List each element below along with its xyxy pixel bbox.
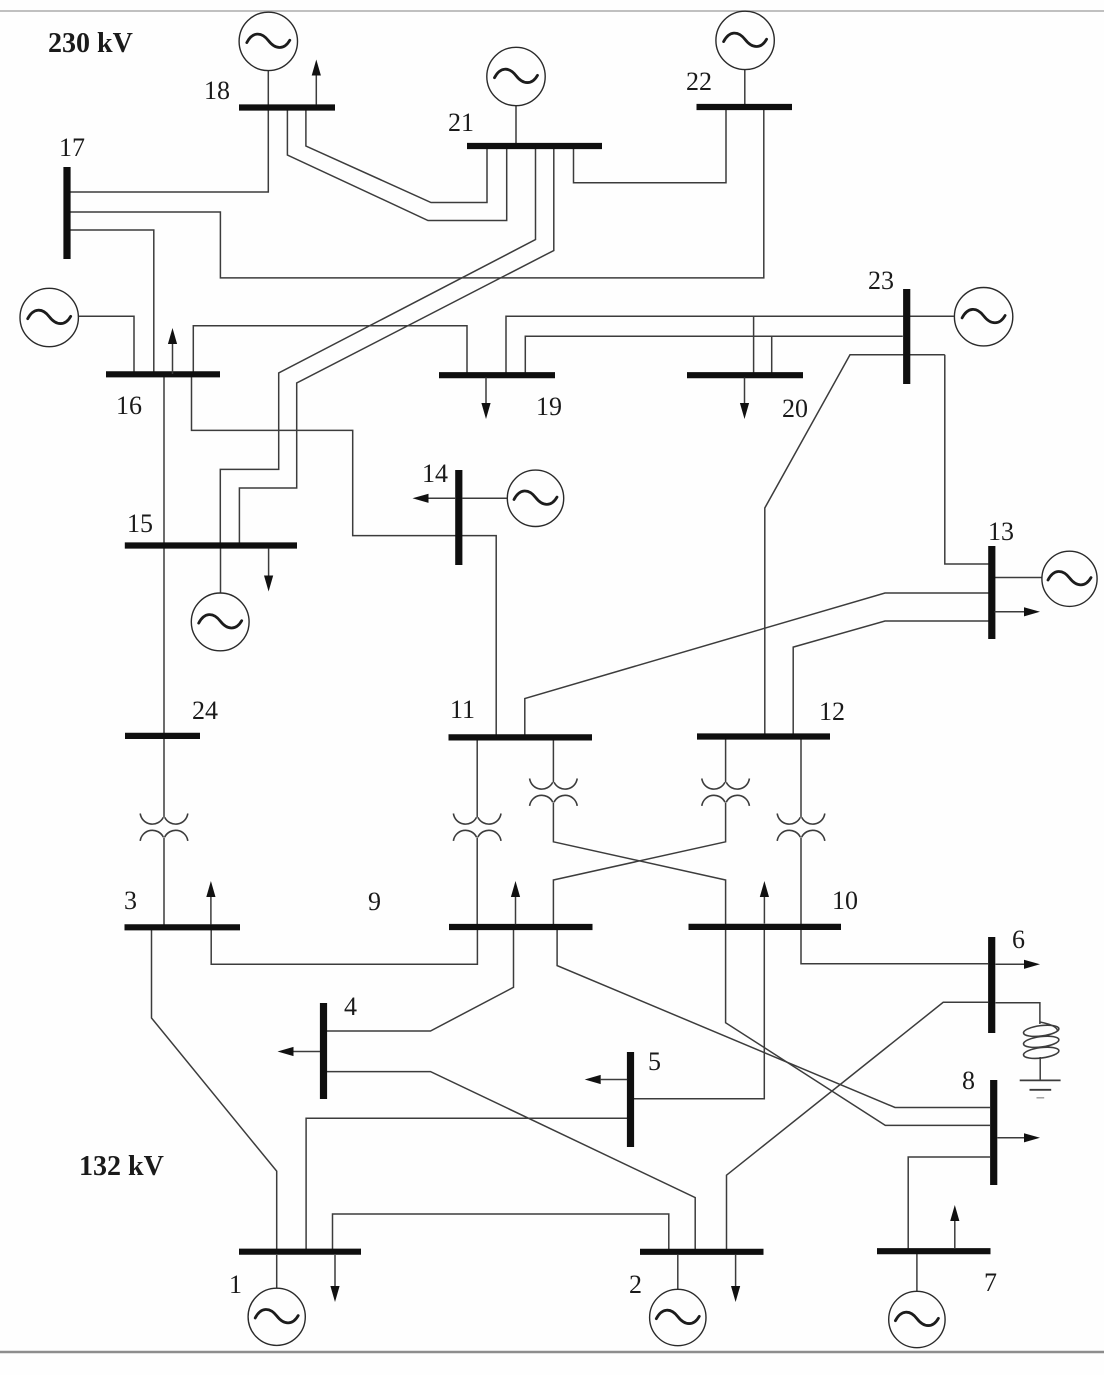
wire generator lead bus 18 bbox=[267, 71, 269, 105]
generator G bus 13 bbox=[1042, 551, 1097, 606]
bus 21 bbox=[467, 143, 602, 149]
wire 1-3 bbox=[152, 930, 277, 1252]
wire 8-9 bbox=[557, 927, 990, 1108]
svg-text:13: 13 bbox=[988, 517, 1014, 546]
transformer T 9-12 bbox=[702, 779, 750, 806]
wire 4-9 bbox=[327, 927, 514, 1031]
generator G bus 7 bbox=[889, 1291, 945, 1347]
bus 23 bbox=[903, 289, 910, 384]
wire 10-12 via transformer bbox=[800, 737, 802, 927]
bus 5 bbox=[627, 1052, 634, 1147]
wire reactor lead bus 6 bbox=[996, 1003, 1040, 1024]
wire 9-11 via transformer bbox=[476, 737, 478, 927]
wire 2-4 bbox=[327, 1072, 695, 1252]
svg-text:12: 12 bbox=[819, 697, 845, 726]
load arrow bus 16 bbox=[168, 328, 177, 374]
svg-text:11: 11 bbox=[450, 695, 475, 724]
bus 16 bbox=[106, 371, 220, 377]
svg-text:10: 10 bbox=[832, 886, 858, 915]
wire 2-6 bbox=[727, 1002, 989, 1252]
wire generator lead bus 13 bbox=[995, 577, 1042, 579]
bus 14 bbox=[455, 470, 462, 565]
wire 16-17 bbox=[67, 230, 154, 374]
svg-text:22: 22 bbox=[686, 67, 712, 96]
wire generator lead bus 16 bbox=[79, 316, 134, 371]
bus 20 bbox=[687, 372, 803, 378]
svg-text:19: 19 bbox=[536, 392, 562, 421]
wire 8-10 bbox=[726, 927, 990, 1125]
bus 6 bbox=[988, 937, 995, 1033]
load arrow bus 9 bbox=[511, 881, 520, 924]
svg-text:14: 14 bbox=[422, 459, 448, 488]
wire 16-19 bbox=[193, 326, 467, 375]
reactor coil bus 6 bbox=[1023, 1022, 1060, 1060]
wire 12-23 bbox=[765, 355, 945, 737]
wire 24-3 below transformer bbox=[163, 837, 165, 927]
generator G bus 15 bbox=[191, 593, 249, 651]
wire 21-22 bbox=[574, 110, 727, 183]
bus 13 bbox=[988, 546, 995, 639]
transformer T 9-11 bbox=[453, 814, 501, 841]
svg-text:16: 16 bbox=[116, 391, 142, 420]
svg-text:3: 3 bbox=[124, 886, 137, 915]
generator G bus 1 bbox=[248, 1288, 305, 1345]
bus 9 bbox=[449, 924, 593, 930]
svg-text:5: 5 bbox=[648, 1047, 661, 1076]
wire reactor to ground bbox=[1039, 1057, 1041, 1080]
wire generator lead bus 15 bbox=[220, 549, 222, 594]
load arrow bus 7 bbox=[950, 1205, 959, 1249]
wire 18-21 circuit 2 bbox=[287, 110, 506, 221]
bus 1 bbox=[239, 1249, 361, 1255]
bus 17 bbox=[63, 167, 70, 259]
svg-text:15: 15 bbox=[127, 509, 153, 538]
load arrow bus 18 bbox=[312, 60, 321, 105]
ground symbol bbox=[1020, 1080, 1061, 1097]
wire 12-13 bbox=[793, 621, 989, 737]
wire 18-21 circuit 1 bbox=[306, 110, 487, 203]
wire 6-10 bbox=[801, 927, 988, 964]
load arrow bus 19 bbox=[481, 378, 490, 420]
svg-text:132 kV: 132 kV bbox=[79, 1151, 164, 1182]
generator G bus 16 bbox=[20, 288, 78, 346]
load arrow bus 2 bbox=[731, 1255, 740, 1302]
wire 1-2 bbox=[333, 1214, 669, 1252]
svg-text:17: 17 bbox=[59, 133, 85, 162]
load arrow bus 4 bbox=[278, 1047, 321, 1056]
load arrow bus 10 bbox=[760, 881, 769, 924]
load arrow bus 8 bbox=[997, 1133, 1040, 1142]
wire 17-22 bbox=[67, 110, 764, 278]
generator G bus 2 bbox=[650, 1289, 706, 1345]
generator G bus 14 bbox=[507, 470, 563, 526]
wire 19-20 / 20-23 circuit 1 bbox=[506, 316, 954, 375]
bus 19 bbox=[439, 372, 555, 378]
generator G bus 21 bbox=[487, 47, 545, 105]
transformer T 3-24 bbox=[140, 814, 188, 841]
wire 3-9 bbox=[211, 927, 477, 964]
bus 18 bbox=[239, 104, 335, 110]
svg-text:18: 18 bbox=[204, 76, 230, 105]
wire 5-10 bbox=[634, 927, 764, 1099]
wire 9-12 via transformer bbox=[553, 737, 725, 927]
svg-text:7: 7 bbox=[984, 1268, 997, 1297]
wire 14-16 bbox=[192, 374, 497, 737]
wire 15-21 circuit 2 bbox=[239, 148, 553, 545]
wire 20-23 circuit 1 bus 20 tap bbox=[753, 316, 755, 375]
wire generator lead bus 1 bbox=[276, 1255, 278, 1288]
svg-text:8: 8 bbox=[962, 1066, 975, 1095]
svg-text:9: 9 bbox=[368, 887, 381, 916]
wire 7-8 bbox=[908, 1157, 990, 1251]
wire generator lead bus 2 bbox=[677, 1255, 679, 1290]
bus 12 bbox=[697, 733, 830, 739]
bus 22 bbox=[697, 104, 793, 110]
svg-text:20: 20 bbox=[782, 394, 808, 423]
load arrow bus 3 bbox=[206, 881, 215, 925]
generator G bus 22 bbox=[716, 11, 774, 69]
wire 1-5 bbox=[306, 1118, 627, 1252]
svg-text:6: 6 bbox=[1012, 925, 1025, 954]
wire generator lead bus 21 bbox=[515, 106, 517, 143]
bus 7 bbox=[877, 1248, 991, 1254]
bus 24 bbox=[125, 733, 200, 739]
svg-text:4: 4 bbox=[344, 992, 357, 1021]
bus 4 bbox=[320, 1003, 327, 1099]
wire 10-11 via transformer bbox=[553, 737, 725, 927]
scan edge line bottom bbox=[0, 1351, 1104, 1354]
load arrow bus 5 bbox=[585, 1075, 628, 1084]
generator G bus 23 bbox=[954, 288, 1012, 346]
svg-text:24: 24 bbox=[192, 696, 218, 725]
wire generator lead bus 7 bbox=[916, 1254, 918, 1292]
load arrow bus 1 bbox=[330, 1255, 339, 1302]
bus 3 bbox=[125, 924, 241, 930]
load arrow bus 6 bbox=[995, 960, 1040, 969]
wire generator lead bus 22 bbox=[744, 70, 746, 104]
load arrow bus 15 bbox=[264, 548, 273, 591]
wire 13-23 bbox=[945, 355, 989, 564]
bus 2 bbox=[640, 1249, 764, 1255]
wire 15-16 / 15-24 spine bbox=[163, 374, 165, 817]
scan edge line top bbox=[0, 10, 1104, 12]
wire 15-21 circuit 1 bbox=[220, 148, 535, 545]
svg-text:230 kV: 230 kV bbox=[48, 28, 133, 59]
wire 19-20 / 20-23 circuit 2 bbox=[525, 336, 903, 375]
wire 17-18 bbox=[67, 105, 268, 193]
svg-text:1: 1 bbox=[229, 1270, 242, 1299]
load arrow bus 13 bbox=[995, 607, 1041, 616]
bus 10 bbox=[689, 924, 842, 930]
transformer T 10-11 bbox=[530, 779, 578, 806]
transformer T 10-12 bbox=[777, 814, 825, 841]
load arrow bus 20 bbox=[740, 378, 749, 420]
bus 8 bbox=[990, 1080, 997, 1185]
wire generator lead bus 14 bbox=[462, 497, 507, 499]
load arrow bus 14 bbox=[413, 494, 456, 503]
bus 11 bbox=[449, 734, 593, 740]
wire 11-13 bbox=[525, 593, 989, 737]
svg-text:23: 23 bbox=[868, 266, 894, 295]
bus 15 bbox=[125, 542, 297, 548]
svg-text:21: 21 bbox=[448, 108, 474, 137]
generator G bus 18 bbox=[239, 12, 297, 70]
wire 20-23 circuit 2 bus 20 tap bbox=[771, 336, 773, 375]
svg-text:2: 2 bbox=[629, 1270, 642, 1299]
